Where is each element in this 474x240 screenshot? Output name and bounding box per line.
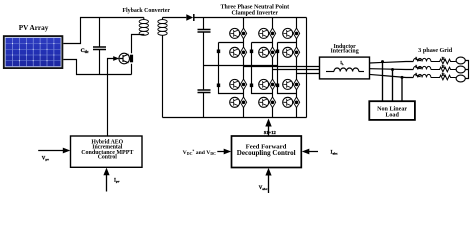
svg-text:PV Array: PV Array xyxy=(19,24,49,32)
svg-text:Clamped Inverter: Clamped Inverter xyxy=(232,11,279,17)
svg-text:Control: Control xyxy=(98,155,118,161)
svg-text:Flyback Converter: Flyback Converter xyxy=(122,8,170,14)
svg-text:Load: Load xyxy=(385,112,399,118)
svg-text:Iabc: Iabc xyxy=(331,150,339,155)
svg-text:3 phase Grid: 3 phase Grid xyxy=(418,47,453,54)
svg-text:Vpv: Vpv xyxy=(42,157,49,162)
svg-text:Interfacing: Interfacing xyxy=(331,49,359,55)
svg-text:Vabc: Vabc xyxy=(259,186,268,191)
svg-text:Decoupling Control: Decoupling Control xyxy=(237,149,296,157)
svg-text:S1+12: S1+12 xyxy=(264,130,277,135)
svg-text:Ipv: Ipv xyxy=(114,178,120,183)
svg-text:Three Phase Neutral Point: Three Phase Neutral Point xyxy=(221,5,290,11)
